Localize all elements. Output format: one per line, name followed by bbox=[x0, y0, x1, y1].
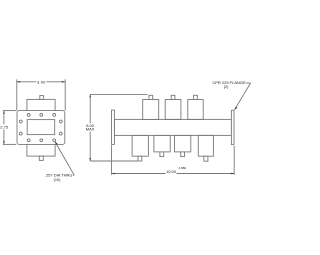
svg-text:2.880: 2.880 bbox=[179, 166, 187, 170]
svg-text:(2): (2) bbox=[224, 85, 229, 89]
svg-text:3.00: 3.00 bbox=[37, 79, 46, 84]
svg-text:10.00: 10.00 bbox=[166, 169, 177, 174]
svg-text:CPR 229 FLANGE: CPR 229 FLANGE bbox=[212, 80, 246, 85]
svg-text:.257 DIA THRU: .257 DIA THRU bbox=[45, 173, 73, 178]
svg-text:2.75: 2.75 bbox=[0, 125, 9, 130]
svg-text:(10): (10) bbox=[54, 178, 61, 182]
svg-text:MAX: MAX bbox=[86, 127, 95, 132]
